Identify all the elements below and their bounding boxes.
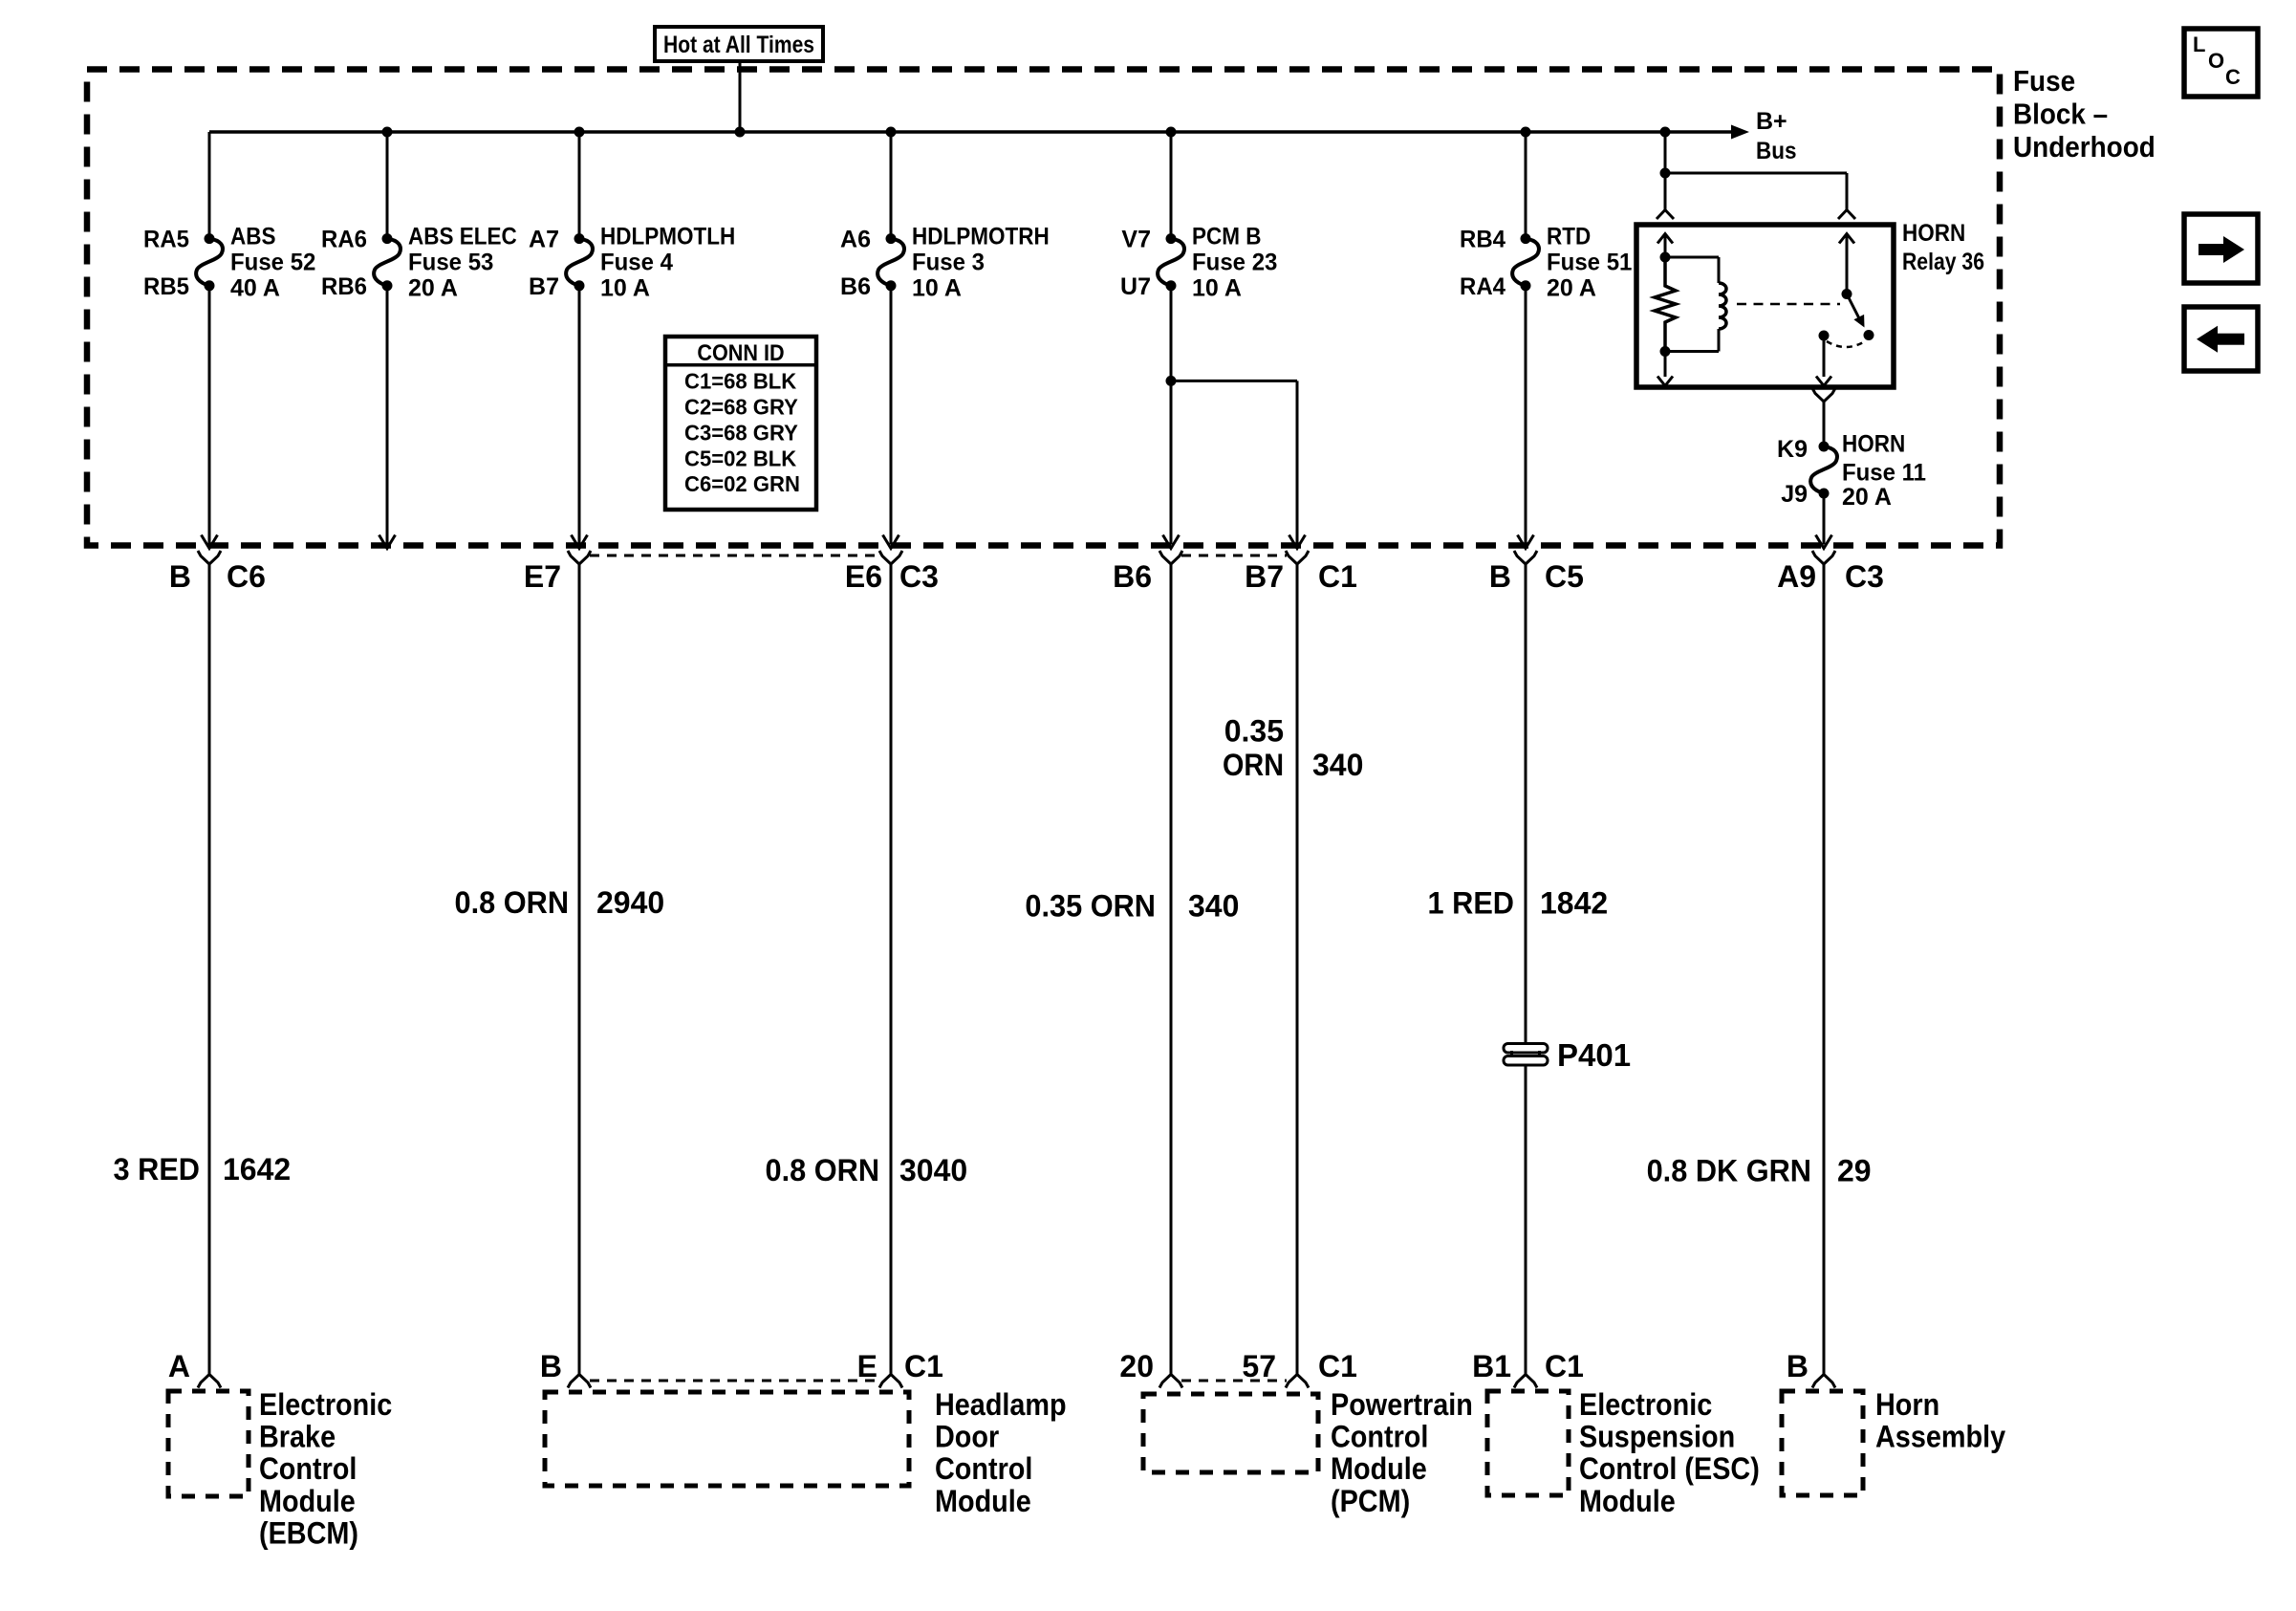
svg-text:B: B [1489,559,1511,594]
svg-text:Module: Module [1331,1451,1427,1486]
svg-text:Brake: Brake [259,1420,336,1454]
svg-text:B6: B6 [840,273,871,300]
svg-text:Horn: Horn [1875,1387,1939,1422]
svg-text:Control: Control [935,1451,1032,1486]
svg-text:Module: Module [259,1484,356,1518]
svg-text:B: B [540,1349,562,1383]
svg-text:A: A [168,1349,190,1383]
svg-text:Fuse 3: Fuse 3 [912,250,985,276]
svg-text:B6: B6 [1113,559,1152,594]
svg-text:Fuse 53: Fuse 53 [408,250,493,276]
svg-text:P401: P401 [1557,1037,1631,1073]
svg-text:A9: A9 [1777,559,1816,594]
svg-text:Bus: Bus [1756,138,1797,164]
svg-text:RB6: RB6 [321,273,367,300]
svg-text:Fuse 11: Fuse 11 [1842,459,1926,486]
svg-text:A6: A6 [840,227,871,253]
svg-text:HORN: HORN [1842,430,1905,457]
svg-text:Control: Control [1331,1420,1428,1454]
svg-text:C1: C1 [1318,1349,1357,1383]
svg-text:C3: C3 [899,559,939,594]
svg-text:10 A: 10 A [1192,275,1242,302]
svg-text:C5: C5 [1545,559,1584,594]
svg-text:Fuse: Fuse [2013,64,2075,98]
svg-text:B+: B+ [1756,108,1787,135]
svg-text:Relay 36: Relay 36 [1902,249,1984,275]
svg-text:3 RED: 3 RED [114,1152,201,1186]
svg-text:Fuse 51: Fuse 51 [1547,250,1632,276]
svg-text:Module: Module [1579,1484,1676,1518]
svg-text:B: B [1787,1349,1809,1383]
svg-text:20: 20 [1119,1349,1154,1383]
svg-text:40 A: 40 A [230,275,280,302]
svg-text:C1: C1 [904,1349,943,1383]
svg-text:Hot at All Times: Hot at All Times [663,32,814,58]
svg-text:(PCM): (PCM) [1331,1484,1410,1518]
svg-text:0.8 DK GRN: 0.8 DK GRN [1647,1154,1811,1188]
svg-text:C6=02 GRN: C6=02 GRN [684,471,800,496]
svg-text:J9: J9 [1781,481,1808,508]
svg-text:Module: Module [935,1484,1031,1518]
svg-text:(EBCM): (EBCM) [259,1515,358,1550]
svg-text:RTD: RTD [1547,224,1591,250]
svg-text:0.8 ORN: 0.8 ORN [766,1153,880,1187]
svg-text:2940: 2940 [596,885,664,920]
svg-text:C3: C3 [1845,559,1884,594]
svg-text:Headlamp: Headlamp [935,1387,1067,1422]
svg-text:B7: B7 [529,273,559,300]
svg-text:ABS ELEC: ABS ELEC [408,224,517,250]
svg-text:C: C [2225,65,2241,89]
svg-text:1642: 1642 [223,1152,291,1186]
svg-text:29: 29 [1837,1154,1872,1188]
svg-text:Door: Door [935,1420,999,1454]
svg-text:Fuse 52: Fuse 52 [230,250,315,276]
svg-text:10 A: 10 A [600,275,650,302]
svg-text:0.35: 0.35 [1224,714,1284,749]
svg-text:340: 340 [1312,748,1363,782]
svg-text:0.35 ORN: 0.35 ORN [1025,889,1156,924]
svg-text:K9: K9 [1777,436,1808,463]
svg-text:Assembly: Assembly [1875,1420,2005,1454]
svg-text:E7: E7 [524,559,561,594]
svg-text:1 RED: 1 RED [1428,886,1515,921]
svg-text:HDLPMOTRH: HDLPMOTRH [912,224,1050,250]
svg-text:Electronic: Electronic [1579,1387,1712,1422]
svg-text:RA6: RA6 [321,227,367,253]
svg-text:3040: 3040 [899,1153,967,1187]
svg-text:Fuse 23: Fuse 23 [1192,250,1277,276]
svg-text:C1: C1 [1318,559,1357,594]
svg-text:C1=68 BLK: C1=68 BLK [684,369,797,394]
svg-text:C5=02 BLK: C5=02 BLK [684,446,797,470]
svg-text:Underhood: Underhood [2013,130,2155,163]
svg-text:RB4: RB4 [1460,227,1505,253]
svg-text:ABS: ABS [230,224,276,250]
svg-text:10 A: 10 A [912,275,962,302]
svg-text:RB5: RB5 [143,273,189,300]
svg-text:U7: U7 [1120,273,1151,300]
svg-text:1842: 1842 [1540,886,1608,921]
svg-text:A7: A7 [529,227,559,253]
svg-text:E6: E6 [845,559,882,594]
svg-text:Powertrain: Powertrain [1331,1387,1473,1422]
svg-text:20 A: 20 A [408,275,458,302]
svg-text:0.8 ORN: 0.8 ORN [455,885,570,920]
svg-text:Block –: Block – [2013,98,2108,131]
svg-text:Control: Control [259,1451,357,1486]
svg-text:ORN: ORN [1223,748,1284,782]
svg-text:HORN: HORN [1902,220,1965,247]
svg-text:C3=68 GRY: C3=68 GRY [684,420,798,445]
svg-text:Control (ESC): Control (ESC) [1579,1451,1760,1486]
svg-text:C6: C6 [227,559,266,594]
svg-text:E: E [857,1349,877,1383]
svg-text:C1: C1 [1545,1349,1584,1383]
svg-text:V7: V7 [1121,227,1151,253]
svg-text:RA5: RA5 [143,227,189,253]
svg-text:57: 57 [1242,1349,1276,1383]
svg-text:RA4: RA4 [1460,273,1505,300]
svg-text:B1: B1 [1472,1349,1511,1383]
svg-text:340: 340 [1188,889,1239,924]
svg-text:20 A: 20 A [1547,275,1596,302]
svg-text:20 A: 20 A [1842,484,1892,511]
svg-text:L: L [2193,33,2205,56]
svg-text:Electronic: Electronic [259,1387,392,1422]
svg-text:C2=68 GRY: C2=68 GRY [684,395,798,420]
svg-text:O: O [2208,49,2224,73]
svg-text:HDLPMOTLH: HDLPMOTLH [600,224,735,250]
svg-text:B: B [169,559,191,594]
svg-text:Fuse 4: Fuse 4 [600,250,673,276]
svg-text:Suspension: Suspension [1579,1420,1735,1454]
svg-text:B7: B7 [1245,559,1284,594]
svg-text:PCM B: PCM B [1192,224,1262,250]
svg-text:CONN ID: CONN ID [697,340,784,366]
